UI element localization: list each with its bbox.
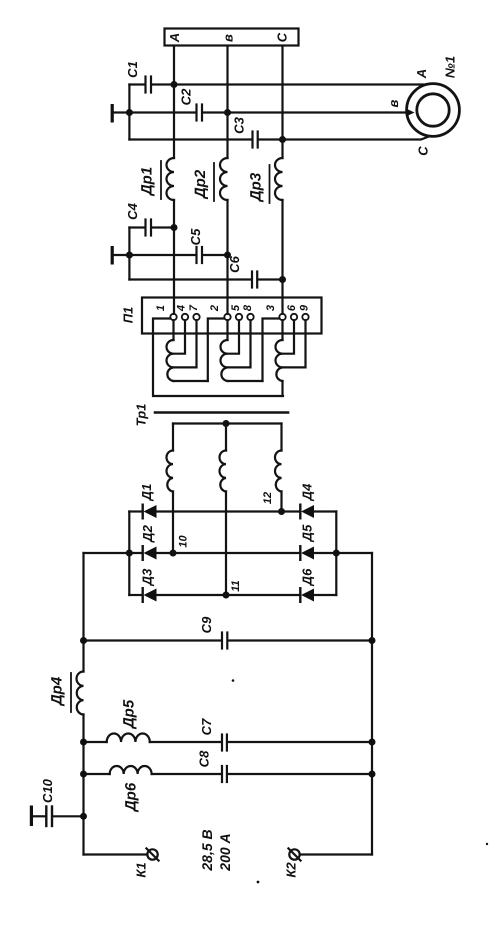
W2 end to pin3 wire — [228, 380, 263, 382]
inductor Dr1 — [167, 158, 175, 200]
wire pin2 to W1 end — [208, 319, 225, 382]
wire left column second group — [128, 228, 130, 280]
secondary common rail — [173, 422, 282, 424]
ground G2 — [111, 246, 114, 265]
svg-text:3: 3 — [265, 305, 277, 311]
inductor Dr2 — [220, 158, 228, 200]
wire phase C vertical lower — [281, 200, 283, 314]
wire to terminal K2 — [300, 853, 372, 855]
connector P1 box — [142, 298, 322, 334]
svg-text:Др5: Др5 — [121, 699, 138, 730]
motor M1 inner circle — [417, 94, 449, 126]
svg-text:С9: С9 — [199, 616, 214, 633]
stray ink dot 3 — [486, 843, 488, 845]
capacitor C4 — [129, 226, 144, 228]
node 11 — [223, 592, 230, 599]
svg-text:С2: С2 — [179, 88, 194, 105]
wire phase A vertical upper — [173, 46, 175, 158]
motor wire-B arrowhead — [407, 109, 415, 116]
output left bus — [82, 553, 84, 672]
capacitor C6 — [129, 278, 251, 280]
tap to pin 5 — [228, 320, 240, 354]
node dot bridge left tap — [126, 550, 133, 557]
capacitor C1 — [129, 83, 144, 85]
bridge row 2 wires — [84, 552, 143, 554]
wire motor phase C — [283, 136, 431, 140]
svg-text:28,5 В: 28,5 В — [199, 829, 215, 871]
svg-text:9: 9 — [299, 304, 311, 311]
svg-text:2: 2 — [209, 305, 221, 312]
tap to pin 9 — [283, 320, 306, 367]
diode D2 — [141, 546, 143, 560]
svg-text:C: C — [275, 32, 290, 42]
tap to pin 7 — [174, 320, 197, 367]
capacitor C3 — [129, 138, 251, 140]
svg-text:С8: С8 — [197, 750, 212, 767]
pin 9 — [302, 314, 308, 320]
ground G1 — [111, 104, 114, 123]
inductor Dr4 — [76, 672, 83, 715]
inductor Dr3 — [275, 158, 283, 200]
node dot bridge right tap — [333, 550, 340, 557]
W3 end to bottom rail — [281, 381, 283, 396]
wire pin1 down — [172, 320, 174, 340]
wire motor phase A — [174, 83, 426, 85]
capacitor C2 — [129, 111, 195, 113]
diode D5 — [299, 546, 301, 560]
svg-text:Др2: Др2 — [192, 169, 209, 200]
node dot C — [279, 136, 286, 143]
pin 5 — [236, 314, 242, 320]
secondary winding S2 — [225, 424, 227, 451]
terminal K1 — [147, 849, 157, 859]
node dot A — [171, 81, 178, 88]
svg-text:С6: С6 — [227, 255, 242, 272]
svg-text:12: 12 — [262, 492, 274, 504]
svg-text:Др1: Др1 — [139, 167, 156, 197]
svg-text:С7: С7 — [199, 718, 214, 735]
svg-text:Тр1: Тр1 — [134, 404, 149, 427]
svg-text:№1: №1 — [443, 56, 458, 78]
ground G3 + capacitor C10 row — [30, 806, 33, 827]
svg-text:Д5: Д5 — [300, 524, 315, 542]
tap to pin 4 — [174, 320, 186, 354]
output right bus — [371, 553, 373, 855]
winding W3 — [275, 340, 282, 381]
svg-text:6: 6 — [286, 304, 298, 311]
svg-text:A: A — [414, 69, 429, 79]
tap to pin 6 — [283, 320, 295, 354]
svg-text:Др3: Др3 — [248, 172, 265, 203]
wire phase A vertical lower — [173, 200, 175, 314]
terminal K2 — [289, 849, 299, 859]
svg-text:С4: С4 — [125, 202, 140, 219]
W1 end to pin2 wire — [174, 380, 208, 382]
svg-text:7: 7 — [188, 304, 200, 311]
svg-text:С10: С10 — [40, 778, 55, 803]
capacitor C5 — [129, 254, 195, 256]
svg-text:Др4: Др4 — [49, 676, 66, 707]
wire pin3 to W2 end — [263, 319, 280, 382]
wire phase C vertical upper — [281, 46, 283, 158]
svg-text:в: в — [386, 99, 401, 107]
inductor Dr6 + capacitor C8 row — [84, 773, 110, 775]
transformer Tr1 core — [155, 411, 288, 414]
wire to terminal K1 — [84, 853, 148, 855]
svg-text:С3: С3 — [232, 116, 247, 133]
wire phase B vertical lower — [226, 200, 228, 314]
node dot B — [224, 109, 231, 116]
pin 8 — [247, 314, 253, 320]
svg-text:С1: С1 — [125, 61, 140, 78]
svg-text:Д6: Д6 — [300, 568, 315, 586]
svg-text:200 А: 200 А — [217, 833, 233, 871]
diode D6 — [299, 588, 301, 602]
secondary winding S3 — [280, 424, 282, 451]
tap to pin 8 — [228, 320, 251, 367]
bridge row 1 wires — [129, 510, 142, 512]
svg-text:П1: П1 — [121, 307, 136, 324]
svg-text:10: 10 — [178, 535, 190, 548]
pin 3 — [279, 314, 285, 320]
node 10 — [170, 550, 177, 557]
node dot ground2 — [126, 252, 133, 259]
svg-text:8: 8 — [242, 304, 254, 311]
svg-text:4: 4 — [176, 305, 188, 312]
svg-text:5: 5 — [230, 304, 242, 311]
wire pin3 down — [281, 320, 283, 340]
inductor Dr5 + capacitor C7 row — [84, 741, 107, 743]
node dot ground1 — [126, 109, 133, 116]
svg-text:в: в — [221, 34, 236, 42]
svg-text:Др6: Др6 — [123, 782, 140, 813]
pin 6 — [291, 314, 297, 320]
node dot secondary mid — [223, 420, 230, 427]
secondary winding S1 — [172, 424, 174, 451]
diode D3 — [141, 588, 143, 602]
winding W1 — [166, 340, 173, 381]
svg-text:A: A — [167, 33, 182, 43]
rectifier bridge right rail — [335, 512, 337, 596]
svg-text:С5: С5 — [188, 228, 203, 245]
motor M1 outer circle — [407, 84, 460, 137]
rectifier bridge left rail — [128, 512, 130, 596]
bridge row 3 wires — [129, 594, 142, 596]
svg-text:1: 1 — [155, 305, 167, 311]
diode D1 — [141, 505, 143, 519]
pin 2 — [224, 314, 230, 320]
bus box with terminals A B C — [165, 29, 299, 46]
wire pin2 down — [226, 320, 228, 340]
pin 7 — [193, 314, 199, 320]
pin 1 — [170, 314, 176, 320]
winding W2 — [220, 340, 227, 381]
diode D4 — [299, 505, 301, 519]
wire phase B vertical upper — [226, 46, 228, 158]
svg-text:Д1: Д1 — [139, 484, 154, 502]
pin 4 — [182, 314, 188, 320]
svg-text:C: C — [416, 146, 431, 156]
svg-text:К1: К1 — [134, 862, 149, 877]
wire pin1 to bottom rail — [153, 319, 283, 397]
stray ink dot — [257, 881, 260, 884]
svg-text:11: 11 — [230, 580, 242, 591]
svg-text:Д2: Д2 — [140, 524, 155, 542]
capacitor C9 row — [84, 639, 222, 641]
svg-text:Д3: Д3 — [140, 568, 155, 586]
wire motor phase B — [228, 111, 408, 113]
wire left column top group — [128, 85, 130, 140]
svg-text:К2: К2 — [284, 862, 299, 878]
svg-text:Д4: Д4 — [300, 483, 315, 501]
node 12 — [278, 508, 285, 515]
stray ink dot 2 — [232, 679, 235, 682]
